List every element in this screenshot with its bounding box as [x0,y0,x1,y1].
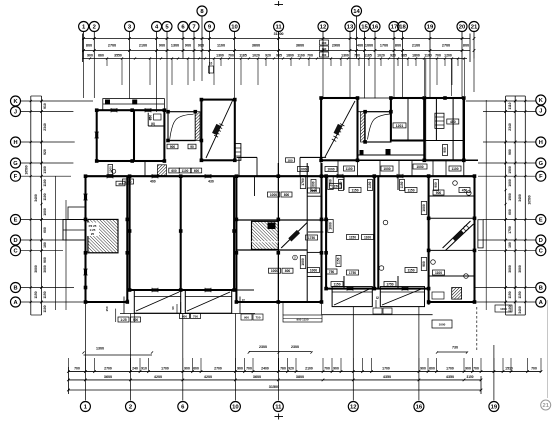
svg-text:2300: 2300 [291,345,299,349]
svg-text:25: 25 [91,232,95,236]
right unit interior label boxes row3 [308,268,445,287]
svg-text:750: 750 [256,316,261,320]
svg-text:985: 985 [276,54,282,58]
svg-text:400: 400 [150,180,156,184]
svg-text:D: D [539,238,543,244]
middle bay partial wall at B [236,289,254,291]
svg-text:2340: 2340 [508,123,512,131]
right ramps base line [322,314,433,316]
bottom dimension ticks and witness [67,351,542,391]
svg-text:920: 920 [43,149,47,155]
svg-text:3800: 3800 [296,375,304,379]
svg-text:1100: 1100 [43,179,47,186]
svg-text:H: H [13,140,17,146]
svg-text:16500: 16500 [25,165,29,174]
svg-text:920: 920 [288,367,294,371]
svg-text:1510: 1510 [505,367,513,371]
svg-text:800: 800 [463,44,469,48]
west porch witness verticals [56,176,67,310]
svg-text:1100: 1100 [508,305,512,312]
svg-text:3150: 3150 [467,375,474,379]
left unit outer walls lower [83,176,127,302]
svg-text:14: 14 [353,9,360,15]
svg-text:1100: 1100 [297,54,305,58]
svg-text:1150: 1150 [349,235,356,239]
svg-text:600: 600 [194,169,199,173]
svg-text:900: 900 [198,44,204,48]
svg-text:700: 700 [307,54,313,58]
top dimension lines [83,34,471,63]
svg-text:21: 21 [543,403,549,409]
svg-text:900: 900 [436,191,442,195]
svg-text:1150: 1150 [351,188,358,192]
right curve room [365,112,391,142]
small labels near left stair [149,115,295,163]
svg-text:2300: 2300 [259,345,267,349]
svg-text:2400: 2400 [261,367,269,371]
left stair room with curve [168,112,195,141]
svg-text:16: 16 [416,405,423,411]
svg-text:900: 900 [333,367,339,371]
middle ramp diagonal with label [281,223,307,249]
svg-text:3600: 3600 [252,44,260,48]
svg-text:1150: 1150 [400,181,404,188]
balcony outline above upper-left block [103,99,165,111]
svg-text:3000: 3000 [34,265,38,273]
svg-text:1150: 1150 [518,291,522,298]
box label 1300 top of left room [123,179,134,184]
svg-text:900: 900 [244,316,249,320]
svg-text:180: 180 [508,242,512,248]
svg-text:1000: 1000 [508,179,512,187]
small dark marks in G-F band right [360,149,391,155]
svg-text:1300: 1300 [43,166,47,174]
grid 11 plus mark and 31500 [274,1,284,36]
small flag boxes near grid 12 [320,40,329,57]
entry step details left porch [105,297,141,323]
svg-text:900: 900 [422,261,426,267]
svg-text:900: 900 [465,367,471,371]
svg-text:1300: 1300 [96,347,104,351]
right outside witness vertical [485,100,487,310]
svg-text:1000: 1000 [439,323,446,327]
svg-text:100: 100 [322,47,327,51]
svg-text:4350: 4350 [446,375,454,379]
right unit wall stubs and windows [107,174,408,292]
protrusion right of left tall room [235,144,241,161]
middle section walls [236,163,326,302]
svg-text:1750: 1750 [386,282,393,286]
svg-text:750: 750 [329,270,335,274]
svg-text:900: 900 [87,54,93,58]
svg-text:I2: I2 [376,296,379,300]
svg-text:1000: 1000 [270,193,277,197]
svg-text:1700: 1700 [380,44,388,48]
stair width labels 600 1100 600 [169,168,202,173]
svg-text:1000: 1000 [365,44,373,48]
bottom dimension lines [68,352,541,395]
svg-text:1000: 1000 [422,204,426,212]
svg-text:12: 12 [350,405,357,411]
svg-text:1185: 1185 [364,54,372,58]
svg-text:1500: 1500 [508,166,512,174]
left porch on west wall [63,207,86,240]
svg-text:F: F [14,174,18,180]
svg-text:1150: 1150 [34,291,38,298]
svg-text:1700: 1700 [382,367,390,371]
svg-text:900: 900 [159,44,165,48]
left dimension chains [30,96,43,315]
svg-text:19: 19 [491,405,498,411]
svg-text:180: 180 [43,242,47,248]
svg-text:11: 11 [275,405,282,411]
svg-text:900: 900 [133,318,138,322]
columns lower walls [84,174,477,304]
svg-text:600: 600 [193,367,199,371]
svg-text:800: 800 [285,269,291,273]
svg-text:1300: 1300 [171,44,179,48]
band G-F labels right unit [298,164,462,172]
svg-text:600: 600 [429,367,435,371]
svg-text:900: 900 [184,367,190,371]
svg-text:17: 17 [391,25,398,31]
svg-text:900: 900 [182,314,187,318]
svg-text:1000: 1000 [327,167,334,171]
right stair tower walls [321,98,357,160]
svg-text:1000: 1000 [500,307,507,311]
columns on upper walls [95,96,466,163]
svg-text:180: 180 [287,158,292,162]
svg-text:B: B [539,286,543,292]
svg-text:700: 700 [228,54,234,58]
entry ramp junction cluster [171,302,201,319]
svg-text:21: 21 [471,25,478,31]
svg-text:1000: 1000 [312,181,316,188]
svg-text:700: 700 [473,367,479,371]
svg-text:700: 700 [531,367,537,371]
svg-text:450: 450 [450,120,456,124]
svg-text:G: G [13,161,18,167]
svg-text:3550: 3550 [114,54,122,58]
svg-text:700: 700 [74,367,80,371]
svg-text:1100: 1100 [217,44,225,48]
svg-text:3400: 3400 [518,194,522,202]
svg-text:400: 400 [357,44,363,48]
svg-text:900: 900 [443,147,447,152]
svg-text:1201: 1201 [396,124,404,128]
wall line G between units [97,155,425,161]
svg-text:1000: 1000 [43,208,47,216]
right unit upper block bottom wall full [321,159,478,161]
svg-text:250: 250 [149,115,153,120]
svg-text:12: 12 [320,25,327,31]
svg-text:1200: 1200 [444,54,452,58]
band G-F dividers right unit [321,161,464,176]
entry ramp right 1 [332,287,372,307]
svg-text:1300: 1300 [341,54,349,58]
svg-text:3000: 3000 [43,265,47,273]
right unit small circles [379,181,471,279]
svg-text:1750: 1750 [308,236,315,240]
svg-text:1020: 1020 [252,54,260,58]
svg-text:900 1150: 900 1150 [296,317,308,321]
svg-text:1000: 1000 [310,268,317,272]
svg-text:1760: 1760 [329,179,333,187]
right stair tread marks [332,124,345,142]
svg-text:100: 100 [322,53,327,57]
svg-text:600: 600 [508,209,512,215]
svg-text:1150: 1150 [368,181,372,188]
svg-text:F: F [539,174,543,180]
svg-text:800: 800 [86,44,92,48]
middle section door wall [254,176,256,196]
svg-text:10500: 10500 [528,195,532,204]
left unit room divider walls [130,176,235,290]
middle section label boxes [268,192,338,274]
svg-text:10: 10 [232,405,239,411]
rotated label near right ramp [336,256,341,267]
svg-text:150: 150 [105,306,109,311]
rotated labels below F wall right unit [311,180,439,191]
left leader lines [21,101,94,302]
svg-text:1000: 1000 [271,269,278,273]
svg-text:20: 20 [459,25,466,31]
svg-text:750: 750 [354,54,360,58]
svg-text:1110: 1110 [508,102,512,109]
svg-text:600: 600 [171,169,176,173]
svg-text:10: 10 [231,25,238,31]
entry step details right [373,300,512,314]
svg-text:900: 900 [43,257,47,263]
svg-text:1150: 1150 [43,291,47,298]
svg-text:3600: 3600 [296,44,304,48]
svg-text:2340: 2340 [43,123,47,131]
svg-text:1100: 1100 [345,167,352,171]
svg-text:D: D [13,238,17,244]
svg-text:910: 910 [43,103,47,109]
svg-text:1000: 1000 [383,167,390,171]
svg-text:1000: 1000 [416,165,423,169]
small flag box near grid 9 [209,62,214,74]
svg-text:3600: 3600 [253,375,261,379]
svg-text:4200: 4200 [154,375,162,379]
svg-text:700: 700 [324,367,330,371]
left grid bubbles [11,96,21,307]
svg-text:900: 900 [237,367,243,371]
svg-text:2900: 2900 [332,44,340,48]
svg-text:800: 800 [284,193,290,197]
svg-text:1800: 1800 [286,54,294,58]
svg-text:200: 200 [322,41,327,45]
svg-text:4200: 4200 [204,375,212,379]
left rotated dimension texts [25,103,48,313]
bottom dimension texts [74,345,537,389]
svg-text:E: E [539,218,543,224]
svg-text:800: 800 [395,44,401,48]
svg-text:1750: 1750 [349,271,356,275]
svg-text:1150: 1150 [333,282,340,286]
svg-text:3600: 3600 [104,375,112,379]
entry step details middle [240,297,322,323]
svg-text:1500: 1500 [508,193,512,201]
svg-text:1000: 1000 [299,167,306,171]
svg-text:2100: 2100 [139,44,147,48]
right unit interior label boxes row1 [308,184,471,196]
right dimension chains [504,96,526,315]
svg-text:3000: 3000 [508,265,512,273]
right unit upper right heavy edge wall [443,98,464,160]
east wing dark hatch box at bottom [452,288,462,300]
svg-text:1:25: 1:25 [120,318,127,322]
right unit upper middle room [391,98,424,141]
svg-text:1100: 1100 [435,271,442,275]
svg-text:1300: 1300 [216,54,224,58]
top dimension texts row2 [87,54,452,58]
bottom grid bubbles [80,400,550,420]
svg-text:G: G [539,161,544,167]
svg-text:1100: 1100 [182,169,189,173]
svg-text:90: 90 [171,306,175,310]
svg-text:19: 19 [427,25,434,31]
svg-text:2100: 2100 [412,44,420,48]
right unit left small rooms column [307,163,323,302]
svg-text:1150: 1150 [407,268,414,272]
svg-text:1000: 1000 [329,222,333,230]
svg-text:920: 920 [390,54,396,58]
svg-text:900: 900 [434,182,438,187]
svg-text:1750: 1750 [508,226,512,234]
right unit upper right rooms [424,98,464,160]
right unit interior label boxes row2 [306,235,374,241]
east balcony bay [478,220,483,248]
svg-text:3400: 3400 [34,194,38,202]
svg-text:J: J [539,109,542,115]
svg-text:1100: 1100 [451,167,458,171]
svg-text:A: A [13,300,17,306]
band G-F small rooms left [145,157,323,176]
east wing stair diagonal [443,221,474,250]
left ramps base line [120,313,255,315]
svg-text:13: 13 [347,25,354,31]
svg-text:920: 920 [265,54,271,58]
svg-text:31500: 31500 [269,385,279,389]
faint grey right margin line [547,300,549,398]
svg-text:A: A [539,300,543,306]
svg-text:730: 730 [452,346,458,350]
svg-text:1020: 1020 [377,54,385,58]
svg-text:1100: 1100 [43,193,47,200]
svg-text:1300: 1300 [125,180,132,184]
right leader lines [466,101,536,302]
svg-text:18: 18 [399,25,406,31]
right rotated dimension texts [508,102,532,313]
svg-text:760: 760 [280,367,286,371]
hatched shaft wall right unit [361,112,365,142]
void outline above right curve room [358,98,391,112]
room labels 400 430 [150,180,214,184]
svg-text:2700: 2700 [214,367,222,371]
svg-text:3000: 3000 [518,265,522,273]
entry ramp left 2 [185,290,231,313]
svg-text:1150: 1150 [407,188,414,192]
svg-text:1000: 1000 [310,189,317,193]
svg-text:1100: 1100 [364,235,371,239]
svg-text:1100: 1100 [43,305,47,312]
svg-text:430: 430 [208,180,214,184]
top dimension ticks [82,37,475,59]
left unit hatched storage room [87,219,119,252]
svg-text:1150: 1150 [508,291,512,298]
entry ramp right 2 [376,287,424,307]
svg-text:16: 16 [372,25,379,31]
right grid bubbles [536,95,546,307]
svg-text:4350: 4350 [383,375,391,379]
svg-text:1150: 1150 [337,257,341,264]
svg-text:C: C [539,249,543,255]
svg-text:900: 900 [420,367,426,371]
svg-text:1700: 1700 [446,367,454,371]
middle hatched stair room [252,221,279,249]
svg-text:J: J [14,110,17,116]
top dimension texts row1 [86,44,469,48]
right unit east wing [429,176,475,302]
hatched shaft wall left unit [195,112,200,141]
svg-text:910: 910 [141,367,147,371]
svg-text:B: B [13,286,17,292]
svg-text:2700: 2700 [108,44,116,48]
bottom bubble leader lines [85,302,494,401]
svg-text:(6): (6) [151,122,155,126]
svg-text:750: 750 [193,314,198,318]
rotated 1300 label left room top [108,165,125,186]
svg-text:I2: I2 [242,299,245,303]
svg-text:1800: 1800 [412,54,420,58]
svg-text:600: 600 [43,227,47,233]
svg-text:1700: 1700 [161,367,169,371]
svg-text:1185: 1185 [239,54,247,58]
top grid bubbles row [79,6,479,59]
left tall stair room with diagonal [201,100,234,161]
svg-text:2100: 2100 [305,367,313,371]
svg-text:1000: 1000 [301,258,305,266]
svg-text:985: 985 [401,54,407,58]
entry ramp left 1 [134,290,180,313]
svg-text:2700: 2700 [104,367,112,371]
svg-text:90: 90 [190,145,194,149]
right side lower porch boxes [432,292,477,352]
svg-text:240: 240 [132,367,138,371]
svg-text:3400: 3400 [518,306,522,314]
svg-text:700: 700 [246,367,252,371]
svg-text:1100: 1100 [424,54,432,58]
svg-text:900: 900 [170,145,175,149]
svg-text:1760: 1760 [301,178,305,186]
svg-text:980: 980 [508,149,512,155]
upper-left block walls [95,108,165,161]
svg-text:900: 900 [185,44,191,48]
svg-text:C: C [13,249,17,255]
svg-text:15: 15 [361,25,368,31]
right unit big rooms [326,176,429,305]
top dimension witness drops [107,59,464,97]
svg-text:660: 660 [98,54,104,58]
svg-text:700: 700 [435,54,441,58]
svg-text:2700: 2700 [442,44,450,48]
svg-text:11: 11 [275,25,282,31]
wall line F full width [86,175,475,177]
svg-text:I2: I2 [126,299,129,303]
svg-text:E: E [14,218,18,224]
